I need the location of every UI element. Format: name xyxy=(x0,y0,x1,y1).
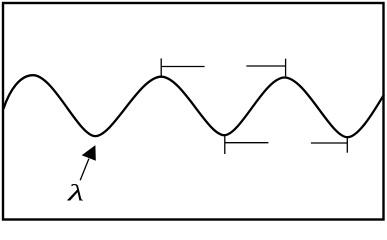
svg-text:λ: λ xyxy=(67,180,84,205)
